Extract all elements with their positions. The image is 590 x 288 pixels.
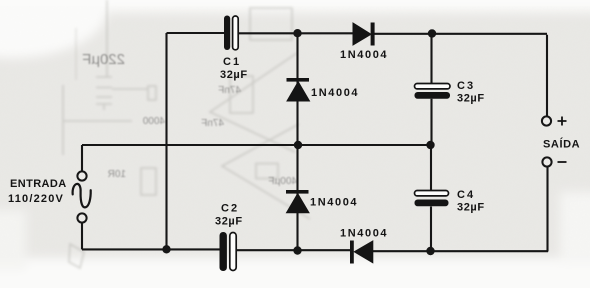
plus sign [558,117,567,126]
svg-text:47nF: 47nF [218,85,241,96]
node top C3 [428,29,436,37]
capacitor C4 [415,191,449,207]
node top D2 [293,29,301,37]
wire bottom rail right [373,250,549,252]
wire D2 column [296,33,298,145]
wire top rail [167,32,225,34]
svg-text:47nF: 47nF [201,118,224,129]
ghost triangle lower [222,124,310,219]
ghost wire vertical left [106,0,108,77]
svg-text:400µF: 400µF [268,176,297,187]
node bottom left [162,245,170,253]
node bottom D3 [293,246,301,254]
wire bottom rail left [82,248,220,250]
svg-text:10R: 10R [108,169,126,180]
ghost bleed-through layer [63,0,310,268]
diode D3 1N4004 lower middle [286,190,309,213]
wire C3 column [430,34,432,146]
ghost blob bottom left [69,244,84,268]
node mid C3/C4 [426,141,434,149]
wire D3 column [296,145,298,251]
ghost box middle [256,164,278,179]
diode D2 1N4004 upper middle [287,78,310,101]
svg-text:1N4004: 1N4004 [340,49,388,61]
terminal output plus [542,116,551,125]
terminal entrada top [77,171,86,180]
ghost box top [250,8,292,40]
ghost wire vertical faint [75,28,77,80]
ghost line left edge [62,85,64,155]
ghost resistor box lower [141,168,156,195]
wire bottom rail mid [237,249,351,251]
svg-text:220µF: 220µF [82,51,125,68]
wire left vertical [165,33,167,249]
svg-text:1N4004: 1N4004 [310,197,358,209]
minus sign [558,161,567,163]
ghost junction box [148,86,156,100]
svg-text:ENTRADA: ENTRADA [10,178,67,190]
capacitor C1 [224,16,238,51]
capacitor C3 [415,84,451,99]
diode D1 1N4004 top [353,23,375,46]
capacitor C2 [220,232,237,271]
svg-text:C4: C4 [457,189,475,201]
wire top rail right of D1 [375,33,548,35]
main schematic [82,33,548,252]
ghost wire horizontal short [112,88,148,90]
svg-text:C1: C1 [223,56,241,68]
wire top rail right of C1 [239,32,354,34]
wire output plus [546,35,548,116]
svg-text:1N4004: 1N4004 [311,87,359,99]
diode D4 1N4004 bottom [350,241,373,264]
wire output minus [546,167,548,252]
AC source sine [73,184,91,207]
terminal output minus [542,157,551,166]
svg-text:SAÍDA: SAÍDA [543,138,580,151]
svg-text:110/220V: 110/220V [8,193,64,205]
wire entrada top lead [81,145,83,172]
ghost resistor box upper [230,76,253,113]
svg-text:32µF: 32µF [220,69,248,81]
node bottom C4 [426,247,434,255]
svg-text:C2: C2 [221,203,239,215]
svg-text:32µF: 32µF [215,216,243,228]
wire mid rail [82,144,431,146]
svg-text:C3: C3 [457,80,475,92]
ghost wire horizontal [64,120,132,122]
svg-text:32µF: 32µF [457,93,485,105]
node mid D2/D3 [294,141,302,149]
svg-text:32µF: 32µF [457,202,485,214]
wire C4 column [430,145,432,251]
svg-text:1N4004: 1N4004 [340,228,388,240]
terminal entrada bottom [77,213,86,222]
ghost triangle upper [210,53,297,152]
ghost capacitor ladder [96,77,112,110]
svg-text:4000: 4000 [142,116,165,127]
wire entrada bottom lead [81,223,83,250]
